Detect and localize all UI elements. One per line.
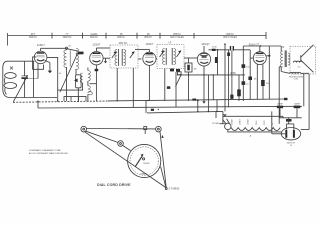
osc grid label: [68, 45, 71, 47]
cord mid to drum: [123, 145, 131, 150]
ground arrow V1: [45, 61, 52, 74]
arrow through L2: [60, 53, 78, 92]
svg-text:12SK7: 12SK7: [145, 42, 154, 46]
svg-text:12SK7: 12SK7: [240, 118, 242, 125]
cord tension clamp: [144, 127, 147, 134]
svg-text:DRUM: DRUM: [143, 163, 149, 165]
svg-text:20 T: 20 T: [31, 34, 36, 36]
filament label SW: [250, 135, 252, 138]
ground arrow detector: [202, 101, 205, 103]
coupling capacitor C8: [230, 46, 250, 58]
top line label 455KC a: [117, 34, 125, 39]
grid resistor R6: [237, 75, 241, 101]
field coil label: [289, 76, 304, 80]
bus line B: [38, 101, 302, 108]
V3 label: [145, 42, 154, 46]
wire drop 208: [207, 75, 209, 112]
cord arrow: [161, 135, 163, 138]
junction dots avc: [180, 74, 214, 75]
svg-text:400 CYCLES: 400 CYCLES: [223, 37, 237, 39]
top line label 455KC b: [144, 34, 152, 39]
dial cord top line: [87, 128, 156, 130]
resistor on B line: [215, 57, 218, 63]
rectifier socket V6: [272, 128, 301, 140]
svg-text:22: 22: [246, 83, 249, 85]
value label near chain R1: [246, 66, 250, 68]
svg-text:456 KC: 456 KC: [119, 41, 128, 45]
C12 label: [277, 104, 283, 106]
B+ line to output transformer: [243, 45, 281, 46]
dial cord mid pulley: [118, 141, 124, 147]
top line label 600KC: [29, 34, 37, 39]
tube V3 12SK7: [135, 49, 156, 65]
dial drum: [128, 144, 161, 177]
top line label 1620KC: [63, 34, 72, 39]
cord TL to anchor: [85, 132, 166, 188]
value label plate R: [212, 47, 217, 49]
oscillator coil L3 primary: [58, 73, 83, 90]
bus C dots: [197, 111, 218, 113]
IF transformer T1 box: [110, 45, 138, 68]
svg-text:B: B: [290, 145, 292, 147]
wire drop 213: [212, 75, 214, 100]
wire T1 primary down: [116, 68, 118, 101]
tube V4 12SQ7: [197, 46, 210, 66]
value label near chain R2: [246, 83, 249, 85]
V4 label: [201, 42, 210, 46]
svg-text:DIAL CORD DRIVE: DIAL CORD DRIVE: [97, 183, 131, 187]
svg-text:220K: 220K: [212, 47, 217, 49]
wire V1 top to gang: [41, 47, 78, 51]
T2 label: [168, 41, 172, 45]
wire V1 plate: [47, 57, 58, 101]
svg-text:30MF: 30MF: [277, 104, 283, 106]
voice coil: [294, 61, 303, 62]
filter resistor: [286, 118, 294, 130]
svg-text:AC-DC SUPERHET RADIO RECEIVER: AC-DC SUPERHET RADIO RECEIVER: [29, 152, 68, 155]
bus line C: [147, 111, 223, 113]
bus junction dots: [37, 100, 148, 102]
wire cathode bus V5: [262, 86, 264, 99]
wire T1 secondary down: [132, 68, 134, 107]
turns label: [169, 188, 180, 191]
svg-text:455 KC: 455 KC: [226, 34, 234, 36]
svg-text:455 KC: 455 KC: [144, 37, 152, 39]
wire plug feed: [215, 112, 217, 119]
svg-text:12SQ7: 12SQ7: [201, 42, 210, 46]
svg-text:1M: 1M: [254, 78, 257, 80]
speaker cone: [301, 45, 314, 73]
wire V1 grid to antenna: [25, 60, 35, 62]
cathode resistor V5: [261, 64, 265, 86]
svg-text:1M: 1M: [194, 69, 197, 71]
svg-text:VC: VC: [298, 67, 301, 69]
screen dropping resistor chain: [242, 46, 246, 101]
T2 secondary trimmer arrow: [177, 50, 182, 57]
wire rect to speaker: [301, 74, 309, 130]
note text: [29, 149, 68, 155]
T2 primary trimmer arrow: [160, 50, 165, 57]
cord TL to mid: [86, 131, 118, 142]
grid leak R7: [230, 51, 233, 100]
grid return resistor: [248, 58, 253, 100]
wire T2 to V4: [184, 57, 198, 59]
capacitor screen bypass: [227, 53, 230, 57]
svg-text:50: 50: [59, 73, 62, 75]
svg-text:COIL: COIL: [294, 79, 300, 81]
value label volume: [194, 69, 197, 71]
svg-text:SHAFT: SHAFT: [141, 173, 148, 176]
svg-text:1620 KC: 1620 KC: [63, 37, 72, 39]
wire V3 plate: [156, 58, 157, 60]
wire T1 out to V3: [138, 58, 141, 60]
plate junction drop: [217, 50, 219, 75]
anchor eyelet: [165, 188, 167, 190]
svg-text:117VAC: 117VAC: [212, 122, 220, 125]
svg-text:470K: 470K: [230, 72, 236, 75]
top line label 455KC c: [170, 34, 184, 39]
svg-text:12SA7: 12SA7: [230, 118, 233, 125]
cord TR to anchor: [160, 132, 166, 188]
electrolytic C12: [277, 106, 283, 118]
loop antenna L1: [3, 61, 57, 97]
top alignment dimension line: [8, 32, 267, 46]
V5 plate wire: [266, 46, 271, 99]
line D: [279, 117, 301, 119]
oscillator grid network box: [74, 75, 81, 101]
wire bplus right: [279, 67, 281, 124]
V1 label: [37, 43, 46, 47]
svg-text:12SA7: 12SA7: [92, 43, 101, 47]
avc label 470K: [230, 72, 236, 75]
tube V2 12SA7: [90, 48, 103, 65]
output transformer T3: [281, 46, 290, 72]
wire V2 top to IFT1: [96, 47, 110, 49]
field coil L5: [281, 72, 309, 74]
filament loop bottom wire: [228, 130, 282, 132]
filament string: [231, 128, 280, 131]
wire V1 cathode down: [25, 63, 38, 78]
trimmer on L2: [78, 52, 84, 55]
svg-text:A: A: [250, 135, 252, 138]
cord drum exit: [161, 167, 166, 188]
wire screen v4: [228, 50, 230, 108]
svg-text:SCHEMATIC DIAGRAM 5 TUBE: SCHEMATIC DIAGRAM 5 TUBE: [29, 149, 61, 152]
plug label 117VAC: [212, 122, 220, 125]
V5 label: [249, 42, 260, 46]
variable capacitor C1 tuning: [21, 61, 27, 97]
wire V4 cathode down: [203, 66, 205, 101]
svg-text:I.F.: I.F.: [168, 41, 172, 45]
IF transformer T2 box: [157, 45, 184, 69]
V1 grid box: [33, 57, 44, 69]
speaker label: [298, 67, 301, 69]
top line label 400cy: [223, 34, 237, 39]
ground arrow V2 plate side: [104, 58, 107, 63]
value label cathode R: [266, 83, 270, 85]
speaker box dashed: [290, 46, 316, 74]
drum shaft arrow: [135, 154, 145, 167]
wire bus drops right: [303, 74, 305, 106]
svg-text:35Z5: 35Z5: [264, 120, 266, 125]
resistor on bus right: [192, 99, 196, 101]
diode load box: [178, 72, 182, 75]
svg-text:455 KC: 455 KC: [117, 37, 125, 39]
T1 secondary trimmer arrow: [130, 51, 135, 58]
power plug P1: [220, 119, 232, 130]
top line label gang: [90, 33, 98, 39]
avc line: [177, 74, 245, 76]
value label 50: [59, 73, 62, 75]
oscillator coil L3 secondary: [88, 68, 97, 102]
wire drop 217: [216, 100, 218, 112]
T1 secondary winding: [122, 49, 126, 66]
loop return wire: [33, 61, 35, 97]
terminal on bus A end: [284, 98, 288, 100]
volume control R5: [185, 58, 192, 101]
svg-text:3 TURNS: 3 TURNS: [169, 188, 180, 191]
heater drop V3: [145, 100, 147, 113]
V2 label: [92, 43, 101, 47]
V5 cathode stem: [256, 64, 258, 99]
svg-text:455 KC: 455 KC: [173, 34, 181, 36]
svg-text:50MF: 50MF: [294, 104, 300, 106]
filament labels: [230, 118, 273, 125]
bus line A chassis: [13, 99, 286, 102]
diode load resistor below T2: [170, 69, 174, 72]
T1 label: [119, 41, 128, 45]
svg-text:30: 30: [68, 45, 71, 47]
V6 label: [287, 143, 296, 148]
wire b+ v4: [224, 43, 226, 111]
wire drop 197: [197, 99, 199, 112]
svg-text:GANG: GANG: [91, 33, 98, 36]
tube V5 50L6GT: [253, 46, 266, 65]
wire T2 secondary down: [175, 72, 177, 107]
resistor plate V4: [209, 49, 230, 51]
wire V2 plate: [103, 57, 110, 59]
tube V1 12SK7: [34, 48, 47, 63]
avc diagonal wire: [176, 75, 182, 87]
gang frame box: [64, 97, 86, 101]
svg-text:50L6: 50L6: [256, 120, 258, 125]
C13 label: [294, 104, 300, 106]
cap below T2: [176, 69, 180, 72]
drum inner labels: [141, 163, 150, 176]
resistor on bus: [151, 109, 159, 111]
fuse X mark: [224, 114, 227, 116]
wire V3 cathode down: [148, 65, 150, 100]
svg-text:12SQ7: 12SQ7: [248, 118, 250, 125]
T2 primary winding: [163, 48, 167, 65]
T3 label: [282, 46, 285, 49]
T1 primary winding: [115, 49, 119, 66]
oscillator coil L2: [64, 48, 79, 101]
svg-text:12SK7: 12SK7: [37, 43, 46, 47]
svg-text:T2: T2: [282, 46, 285, 49]
loop antenna X mark: [10, 67, 13, 70]
value label grid resistor: [254, 78, 257, 80]
dial cord top right pulley: [156, 126, 162, 132]
line cord riser: [222, 112, 224, 124]
resistor on T2 drop: [167, 86, 170, 89]
wire V2 cathode down: [95, 65, 97, 101]
electrolytic C13: [294, 106, 301, 118]
wire T2 primary down: [164, 69, 166, 102]
cathode resistor V2: [95, 69, 99, 71]
T1 primary trimmer arrow: [112, 51, 117, 58]
svg-text:400 CYCLES: 400 CYCLES: [170, 37, 184, 39]
svg-text:600 KC: 600 KC: [90, 37, 98, 39]
filament loop top wire: [223, 116, 283, 118]
wire rect left down: [271, 111, 273, 133]
T2 secondary winding: [172, 48, 176, 65]
arrow through C1: [13, 75, 28, 102]
dial cord top left pulley: [81, 126, 87, 132]
svg-text:600 KC: 600 KC: [29, 37, 37, 39]
dial cord caption: [97, 183, 131, 187]
